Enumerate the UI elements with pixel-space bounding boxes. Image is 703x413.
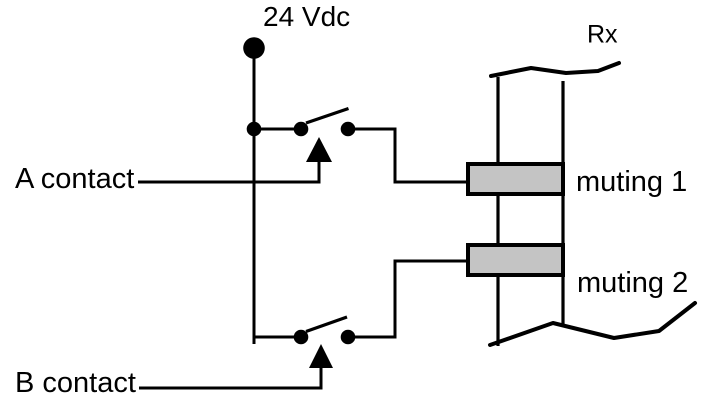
switch A blade	[306, 109, 349, 124]
switch B left contact dot	[294, 330, 309, 345]
switch B actuator arrow	[309, 344, 333, 368]
node junction dot A	[247, 122, 262, 137]
svg-text:muting 1: muting 1	[576, 166, 687, 198]
wire bus to switch B	[254, 336, 301, 339]
switch B actuator stem	[320, 367, 323, 388]
wire switch B to muting 2	[348, 261, 467, 337]
muting sensor 2 box	[468, 245, 563, 275]
switch A actuator arrow	[306, 137, 332, 162]
svg-text:B contact: B contact	[15, 367, 136, 399]
wire receiver right rail	[561, 81, 564, 324]
switch A left contact dot	[294, 122, 309, 137]
wire A contact lead	[138, 181, 321, 184]
switch B right contact dot	[341, 330, 356, 345]
receiver top break line	[491, 63, 619, 76]
svg-text:Rx: Rx	[587, 21, 618, 49]
wire bus to switch A	[254, 128, 301, 131]
switch A actuator stem	[318, 161, 321, 182]
wire switch A to muting 1	[348, 129, 467, 182]
svg-text:A contact: A contact	[15, 163, 134, 195]
wire B contact lead	[139, 387, 323, 390]
wire receiver left rail	[496, 77, 499, 346]
supply terminal dot	[243, 37, 265, 59]
switch B blade	[306, 317, 347, 332]
svg-text:24 Vdc: 24 Vdc	[263, 1, 350, 32]
wire vertical supply bus	[253, 48, 256, 344]
switch A right contact dot	[341, 122, 356, 137]
muting sensor 1 box	[468, 164, 563, 194]
receiver bottom break line	[490, 303, 695, 345]
svg-text:muting 2: muting 2	[577, 267, 688, 299]
